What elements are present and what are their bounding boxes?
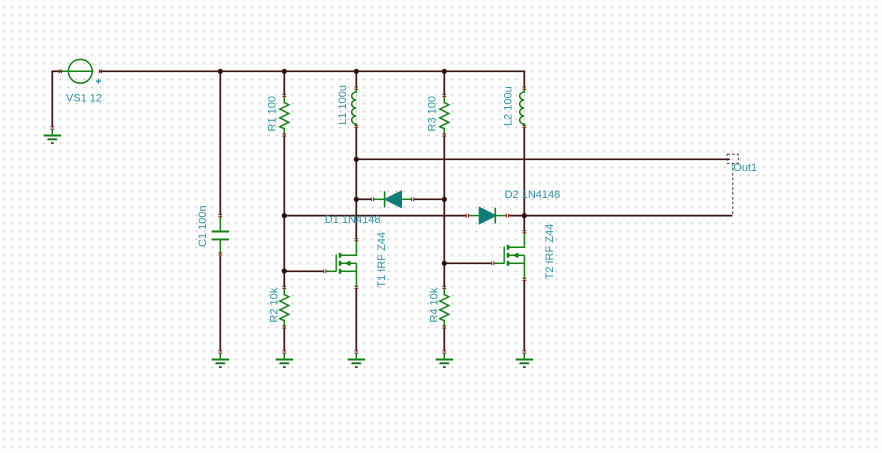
label D1 1N4148 <box>325 214 381 226</box>
svg-text:R4 10k: R4 10k <box>429 287 441 322</box>
wire lower out right of D2 <box>509 215 733 217</box>
svg-text:R1 100: R1 100 <box>267 96 279 131</box>
node L1 top <box>354 69 359 74</box>
resistor R3 <box>440 94 449 136</box>
label T1 IRF Z44 <box>376 232 388 288</box>
label R3 100 <box>427 96 439 131</box>
diode D1 <box>371 191 413 207</box>
node T2 gate junction <box>442 261 447 266</box>
node R1 top <box>282 69 287 74</box>
ground T2 <box>516 351 533 367</box>
node Out1 terminal <box>727 154 738 215</box>
svg-text:R3 100: R3 100 <box>427 96 439 131</box>
voltage source VS1 <box>59 59 101 83</box>
resistor R2 <box>280 286 289 328</box>
node T1 gate junction <box>282 268 287 273</box>
svg-text:D2 1N4148: D2 1N4148 <box>505 189 561 201</box>
transistor T1 <box>324 239 359 289</box>
label D2 1N4148 <box>505 189 561 201</box>
node R3 top <box>442 69 447 74</box>
wire T1 source to ground <box>355 288 357 351</box>
svg-text:R2 10k: R2 10k <box>269 287 281 322</box>
ground R2 <box>276 351 293 367</box>
wire L1 to T1 drain <box>355 127 357 239</box>
wire L1 top <box>355 71 357 87</box>
ground VS1 <box>44 127 61 143</box>
label VS1 12 <box>66 93 102 105</box>
node C1 top <box>218 69 223 74</box>
wire T2 gate <box>444 262 491 264</box>
wire D1 right <box>414 198 445 200</box>
wire Out1 upper <box>356 158 730 160</box>
wire D1 left <box>356 198 371 200</box>
label R1 100 <box>267 96 279 131</box>
capacitor C1 <box>212 215 229 256</box>
ground C1 <box>212 351 229 367</box>
svg-text:VS1 12: VS1 12 <box>66 93 102 105</box>
svg-text:Out1: Out1 <box>733 162 757 174</box>
label L2 100u <box>503 86 515 126</box>
inductor L2 <box>520 87 527 128</box>
svg-text:L2 100u: L2 100u <box>503 86 515 126</box>
node D2-T2 drain junction <box>522 213 527 218</box>
wire L2 to T2 drain <box>523 127 525 231</box>
label C1 100n <box>197 205 209 247</box>
wire R2 to ground <box>283 327 285 351</box>
diode D2 <box>466 208 508 224</box>
wire C1 branch lower <box>219 256 221 351</box>
node D1 cathode junction <box>442 197 447 202</box>
ground T1 <box>348 351 365 367</box>
svg-text:C1 100n: C1 100n <box>197 205 209 247</box>
node L1-Out1 tap <box>354 157 359 162</box>
wire T2 source to ground <box>523 280 525 351</box>
wire R3-R4 column <box>443 135 445 287</box>
inductor L1 <box>352 87 359 128</box>
wire T1 gate <box>284 270 324 272</box>
wire lower out left of D2 <box>284 215 466 217</box>
wire top rail <box>100 70 526 72</box>
resistor R4 <box>440 286 449 328</box>
node lower-out left junction <box>282 213 287 218</box>
transistor T2 <box>492 231 527 281</box>
wire R1 top <box>283 71 285 95</box>
ground R4 <box>436 351 453 367</box>
wire C1 branch upper <box>219 71 221 214</box>
wire top rail left segment <box>52 70 62 72</box>
label L1 100u <box>337 85 349 125</box>
svg-text:L1 100u: L1 100u <box>337 85 349 125</box>
label Out1 <box>733 162 757 174</box>
label T2 IRF Z44 <box>544 224 556 280</box>
node D1 anode junction <box>354 197 359 202</box>
wire L2 top <box>523 71 525 87</box>
label R4 10k <box>429 287 441 322</box>
label R2 10k <box>269 287 281 322</box>
svg-text:T1 IRF Z44: T1 IRF Z44 <box>376 232 388 288</box>
resistor R1 <box>280 94 289 136</box>
svg-text:D1 1N4148: D1 1N4148 <box>325 214 381 226</box>
wire R4 to ground <box>443 327 445 351</box>
svg-text:T2 IRF Z44: T2 IRF Z44 <box>544 224 556 280</box>
wire VS1 ground drop <box>51 71 53 128</box>
wire R3 top <box>443 71 445 95</box>
wire R1-R2 column <box>283 135 285 287</box>
